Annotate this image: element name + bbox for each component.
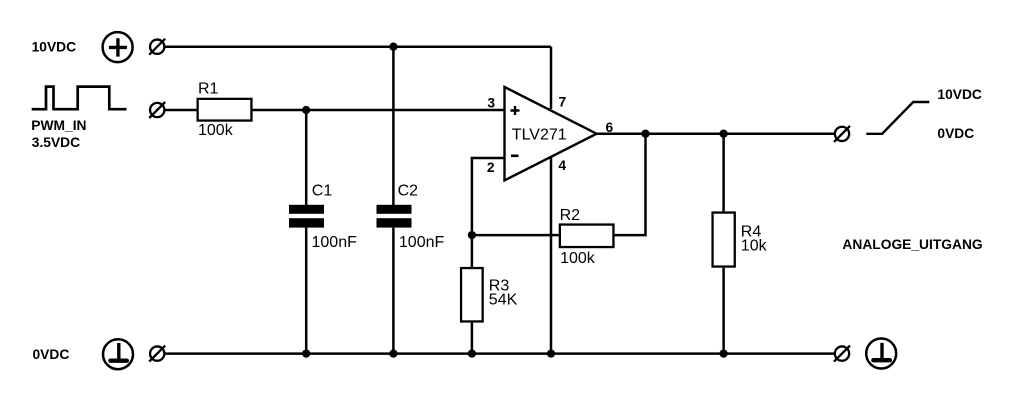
svg-text:3: 3	[487, 95, 495, 110]
resistor R1	[198, 99, 252, 121]
wire top rail 10VDC	[164, 45, 551, 48]
svg-text:100nF: 100nF	[312, 234, 358, 251]
wire pin2 to feedback node	[472, 158, 505, 267]
resistor R4	[713, 213, 735, 267]
capacitor C2	[377, 205, 412, 228]
output step waveform icon	[866, 102, 929, 134]
wire C2 bottom lead	[392, 228, 395, 354]
wire R2 to output node	[615, 134, 646, 235]
ground symbol left	[103, 339, 133, 369]
junction top rail C2	[389, 43, 397, 51]
svg-text:TLV271: TLV271	[512, 127, 567, 144]
svg-text:4: 4	[558, 158, 566, 173]
wire R4 top lead	[722, 134, 725, 212]
svg-text:54K: 54K	[489, 292, 518, 309]
svg-text:7: 7	[559, 95, 567, 110]
terminal 10VDC	[149, 39, 165, 55]
junction feedback on output	[641, 130, 649, 138]
plus supply symbol	[103, 32, 133, 62]
junction R4 top	[719, 130, 727, 138]
svg-text:2: 2	[487, 160, 495, 175]
svg-text:100k: 100k	[198, 122, 234, 139]
svg-text:10k: 10k	[741, 238, 768, 255]
wire R3 bottom lead	[471, 323, 474, 354]
wire C2 top lead	[392, 47, 395, 206]
svg-text:C2: C2	[398, 182, 419, 199]
terminal analog output	[834, 126, 850, 142]
svg-text:C1: C1	[312, 182, 333, 199]
svg-text:R1: R1	[198, 80, 219, 97]
wire terminal to R1	[164, 109, 197, 112]
wire R1 to op-amp pin3	[253, 109, 505, 112]
svg-text:100nF: 100nF	[399, 234, 445, 251]
junction ground pin4	[547, 349, 555, 357]
wire C1 top lead	[305, 110, 308, 206]
junction feedback node	[468, 231, 476, 239]
terminal ground right	[834, 346, 850, 362]
resistor R2	[560, 225, 614, 248]
terminal PWM_IN	[149, 102, 165, 118]
junction ground C2	[389, 349, 397, 357]
op-amp U1 TLV271	[505, 87, 597, 180]
svg-text:0VDC: 0VDC	[33, 347, 70, 362]
svg-text:10VDC: 10VDC	[937, 87, 982, 102]
svg-text:10VDC: 10VDC	[32, 40, 77, 55]
junction ground C1	[302, 349, 310, 357]
wire pin4 to ground rail	[550, 157, 553, 354]
svg-text:3.5VDC: 3.5VDC	[32, 135, 80, 150]
junction C1 input node	[302, 106, 310, 114]
ground symbol right	[866, 339, 896, 369]
svg-text:0VDC: 0VDC	[937, 126, 974, 141]
wire C1 bottom lead	[305, 228, 308, 354]
resistor R3	[461, 268, 483, 321]
svg-text:ANALOGE_UITGANG: ANALOGE_UITGANG	[842, 237, 982, 252]
wire R4 bottom lead	[722, 268, 725, 354]
junction ground R4	[719, 349, 727, 357]
capacitor C1	[289, 205, 324, 228]
wire output pin6	[597, 132, 834, 135]
PWM waveform icon	[32, 87, 127, 110]
svg-text:PWM_IN: PWM_IN	[31, 118, 86, 133]
wire pin7 supply drop	[550, 47, 553, 109]
wire ground rail	[164, 352, 834, 355]
svg-text:R2: R2	[560, 207, 581, 224]
svg-text:100k: 100k	[560, 250, 596, 267]
junction ground R3	[468, 349, 476, 357]
wire feedback node to R2	[472, 234, 559, 237]
terminal ground left	[149, 346, 165, 362]
